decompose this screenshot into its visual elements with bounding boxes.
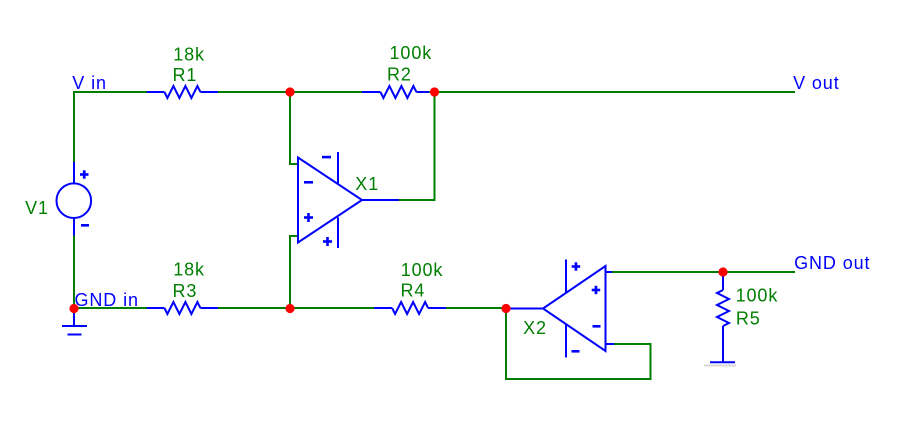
label 18k for R3 xyxy=(173,259,205,279)
wire X2 feedback loop xyxy=(506,308,651,379)
wire X1 non-inverting input to bottom node xyxy=(290,236,299,308)
svg-text:V1: V1 xyxy=(25,198,49,218)
svg-text:18k: 18k xyxy=(173,45,205,65)
svg-text:100k: 100k xyxy=(736,286,779,306)
label X2 xyxy=(523,318,547,338)
junction node on top rail at R2 output xyxy=(430,87,439,96)
wire X2 plus input to GND out xyxy=(612,271,795,273)
wire X1 output feedback to top node xyxy=(399,92,435,200)
voltage source V1 xyxy=(57,162,92,236)
resistor R2 xyxy=(362,86,430,98)
resistor R3 xyxy=(147,302,220,314)
svg-text:GND out: GND out xyxy=(794,253,870,273)
svg-text:R2: R2 xyxy=(387,65,412,85)
svg-text:R3: R3 xyxy=(173,281,198,301)
ground under R5 xyxy=(704,362,736,365)
svg-text:R4: R4 xyxy=(401,281,426,301)
label 100k for R4 xyxy=(401,260,444,280)
net label V out xyxy=(793,73,840,93)
wire top rail middle segment xyxy=(218,91,363,93)
junction node GND in xyxy=(69,304,78,313)
svg-text:V out: V out xyxy=(793,73,840,93)
label X1 xyxy=(355,174,379,194)
label V1 xyxy=(25,198,49,218)
svg-text:100k: 100k xyxy=(390,43,433,63)
ground under GND in node xyxy=(62,309,87,335)
label R5 xyxy=(736,309,761,329)
label 18k for R1 xyxy=(173,45,205,65)
op-amp X1 xyxy=(298,152,399,248)
svg-text:R5: R5 xyxy=(736,309,761,329)
wire bottom rail left segment xyxy=(74,307,148,309)
svg-text:X1: X1 xyxy=(355,174,379,194)
svg-text:18k: 18k xyxy=(173,259,205,279)
net label GND in xyxy=(75,290,139,310)
junction node at R5 top xyxy=(718,267,727,276)
svg-text:R1: R1 xyxy=(173,65,198,85)
wire X1 inverting input from top node xyxy=(290,92,299,164)
label R3 xyxy=(173,281,198,301)
wire bottom rail to X2 node xyxy=(446,307,507,309)
junction node on top rail at X1 input xyxy=(285,87,294,96)
label 100k for R2 xyxy=(390,43,433,63)
resistor R5 xyxy=(717,272,729,362)
op-amp X2 xyxy=(507,260,615,358)
net label V in xyxy=(72,73,107,93)
wire bottom rail middle segment xyxy=(218,307,375,309)
label R1 xyxy=(173,65,198,85)
wire top rail right segment to V out xyxy=(429,91,795,93)
junction node bottom rail at X1 input xyxy=(285,304,294,313)
label R2 xyxy=(387,65,412,85)
junction node at X2 output xyxy=(501,304,510,313)
net label GND out xyxy=(794,253,870,273)
svg-text:V in: V in xyxy=(72,73,107,93)
svg-text:100k: 100k xyxy=(401,260,444,280)
resistor R4 xyxy=(374,302,447,314)
svg-text:X2: X2 xyxy=(523,318,547,338)
label R4 xyxy=(401,281,426,301)
svg-text:GND in: GND in xyxy=(75,290,139,310)
wire from V1 minus to GND in node xyxy=(73,236,75,309)
wire top rail left segment xyxy=(74,91,148,93)
wire V in vertical drop xyxy=(73,91,75,162)
label 100k for R5 xyxy=(736,286,779,306)
resistor R1 xyxy=(147,86,220,98)
